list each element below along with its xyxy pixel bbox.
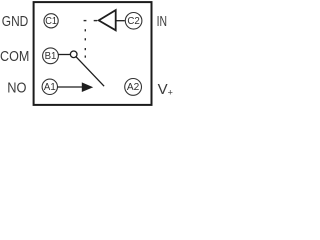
pin A2 xyxy=(125,79,142,96)
wire B1 to pole xyxy=(58,54,71,56)
dashed control line vertical xyxy=(84,29,86,58)
NO contact arrowhead xyxy=(82,82,93,92)
svg-text:A2: A2 xyxy=(127,82,140,93)
device box xyxy=(34,2,152,105)
svg-text:IN: IN xyxy=(157,13,167,30)
svg-text:C1: C1 xyxy=(45,16,57,27)
pin A1 xyxy=(42,79,57,94)
svg-text:COM: COM xyxy=(0,48,29,65)
svg-text:GND: GND xyxy=(2,13,29,30)
svg-text:A1: A1 xyxy=(44,82,56,93)
dashed control line horizontal xyxy=(84,20,98,22)
switch arm xyxy=(76,57,104,86)
svg-text:NO: NO xyxy=(7,80,26,97)
inverter U1 xyxy=(99,10,116,30)
pin C1 xyxy=(44,14,58,28)
switch pole circle xyxy=(70,51,77,58)
svg-text:C2: C2 xyxy=(127,16,140,27)
svg-text:B1: B1 xyxy=(45,51,57,62)
pin B1 xyxy=(43,48,59,64)
wire A1 to NO contact xyxy=(57,86,83,88)
pin C2 xyxy=(125,12,142,29)
wire inverter to C2 xyxy=(116,20,125,22)
